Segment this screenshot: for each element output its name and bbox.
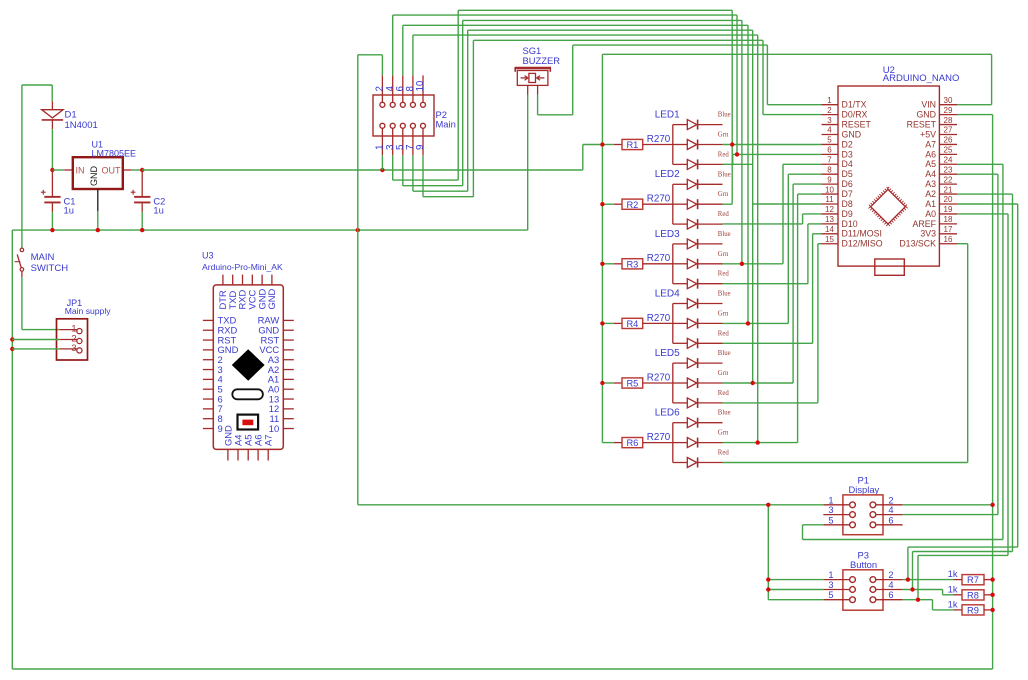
U3 ISP square (238, 415, 259, 430)
resistor R1 (602, 144, 614, 146)
svg-text:R6: R6 (626, 438, 638, 448)
U2 USB connector symbol (875, 259, 905, 275)
svg-text:Red: Red (718, 450, 730, 457)
U2 pin 4 GND (822, 133, 839, 135)
U3 right pin 13 (283, 398, 294, 400)
U2 pin 27 +5V (939, 133, 957, 135)
svg-text:20: 20 (944, 195, 953, 204)
svg-text:12: 12 (825, 205, 834, 214)
U3 right pin 11 (283, 418, 294, 420)
svg-text:+5V: +5V (920, 129, 936, 139)
U3 left pin GND (203, 349, 213, 351)
svg-text:9: 9 (415, 145, 426, 150)
U2 pin 2 D0/RX (822, 114, 839, 116)
svg-text:R2: R2 (626, 200, 638, 210)
svg-text:AREF: AREF (913, 219, 937, 229)
wire (51, 129, 53, 170)
wire LED3 Grn to D4 (723, 263, 784, 265)
svg-text:D4: D4 (842, 159, 853, 169)
U3 left pin RXD (203, 329, 213, 331)
wire P2 pin2 to GND rail (381, 55, 383, 76)
P2 pin 4 (392, 75, 394, 102)
U2 pin 24 A5 (939, 163, 957, 165)
wire bus vert D6 (757, 35, 759, 443)
P2 pin 7 (412, 129, 414, 156)
resistor R8 (903, 589, 943, 591)
svg-text:D12/MISO: D12/MISO (842, 239, 883, 249)
wire bus D5 (403, 24, 748, 26)
wire GND left vertical (11, 230, 13, 669)
P2 pin 9 (422, 129, 424, 156)
U3 top pin GND (271, 275, 273, 285)
wire P2 pin7 route (412, 155, 414, 191)
svg-text:Display: Display (849, 484, 880, 495)
svg-text:GND: GND (916, 110, 936, 120)
svg-text:Red: Red (718, 151, 730, 158)
svg-text:D6: D6 (842, 179, 853, 189)
svg-text:D2: D2 (842, 139, 853, 149)
U3 left pin TXD (203, 319, 213, 321)
resistor R6 (602, 442, 614, 444)
U2 pin 25 A6 (939, 153, 957, 155)
U3 left pin 7 (203, 408, 213, 410)
svg-text:U3: U3 (202, 251, 214, 261)
U2 pin 8 D5 (822, 173, 839, 175)
node junction GND right (990, 503, 994, 507)
svg-text:3V3: 3V3 (920, 229, 936, 239)
svg-text:MAIN: MAIN (31, 252, 55, 263)
node junction GND P3.3 (766, 587, 770, 591)
U3 left pin 5 (203, 388, 213, 390)
node junction +5V rail R4 (600, 321, 604, 325)
U3 left pin 2 (203, 359, 213, 361)
wire bus vert D3 (736, 15, 738, 154)
svg-text:13: 13 (825, 215, 834, 224)
svg-text:R1: R1 (626, 140, 638, 150)
wire P3 pin5 (768, 599, 823, 601)
U3 top pin VCC (251, 275, 253, 285)
svg-text:Red: Red (718, 390, 730, 397)
resistor R7 (903, 579, 954, 581)
svg-text:D8: D8 (842, 199, 853, 209)
U2 pin 30 VIN (939, 104, 957, 106)
svg-text:Blue: Blue (718, 112, 731, 119)
node junction +5V rail R3 (600, 262, 604, 266)
P2 pin 6 (402, 75, 404, 102)
diode D1 (51, 101, 53, 109)
wire JP1 pin3 (10, 347, 14, 351)
wire GND pin29 (957, 114, 993, 116)
wire buzzer left to GND (527, 95, 529, 231)
svg-text:27: 27 (944, 126, 953, 135)
P2 pin 3 (392, 129, 394, 156)
U2 pin 16 D13/SCK (939, 243, 957, 245)
svg-text:OUT: OUT (102, 166, 122, 176)
U3 bottom pin A4 (237, 449, 239, 460)
svg-text:R270: R270 (647, 194, 671, 205)
svg-text:1: 1 (828, 495, 833, 505)
svg-text:5: 5 (827, 136, 832, 145)
svg-text:2: 2 (888, 495, 893, 505)
wire GND long to P1 pin1 (358, 504, 824, 506)
svg-text:Blue: Blue (718, 231, 731, 238)
svg-text:R5: R5 (626, 379, 638, 389)
P1 pin 3 (823, 514, 849, 516)
wire GND bottom (12, 668, 992, 670)
svg-text:IN: IN (76, 166, 85, 176)
svg-text:9: 9 (827, 175, 832, 184)
U2 pin 14 D11/MOSI (822, 233, 839, 235)
resistor R5 (602, 382, 614, 384)
JP1 pin 3 (60, 348, 78, 350)
capacitor C1 (51, 170, 53, 197)
svg-text:Grn: Grn (718, 132, 729, 139)
wire bus vert D0/RX (762, 40, 764, 114)
svg-text:3: 3 (71, 343, 76, 353)
svg-text:A7: A7 (263, 435, 274, 446)
U3 top pin TXD (232, 275, 234, 285)
svg-text:2: 2 (888, 570, 893, 580)
U3 right pin 10 (283, 428, 294, 430)
svg-text:1k: 1k (948, 584, 958, 594)
svg-text:19: 19 (944, 205, 953, 214)
wire LED6 Red to D13 (723, 462, 968, 464)
svg-text:RESET: RESET (842, 119, 872, 129)
U2 pin 10 D7 (822, 193, 839, 195)
U3 chip diamond (233, 350, 264, 380)
U3 right pin VCC (283, 349, 294, 351)
U2 pin 23 A4 (939, 173, 957, 175)
U2 pin 13 D10 (822, 223, 839, 225)
svg-text:Main: Main (436, 119, 456, 130)
node junction +5V rail R2 (600, 202, 604, 206)
U3 right pin GND (283, 329, 294, 331)
node IN junction (50, 168, 54, 172)
wire LED1 Grn to D2 row (723, 144, 822, 146)
svg-text:1k: 1k (948, 600, 958, 610)
svg-text:3: 3 (828, 505, 833, 515)
node junction GND P1 (766, 503, 770, 507)
U3 right pin 12 (283, 408, 294, 410)
wire LED6 Grn to D7 (723, 442, 798, 444)
wire JP1 pin2 (10, 337, 14, 341)
svg-text:Grn: Grn (718, 310, 729, 317)
wire P2 pin8 riser (412, 35, 414, 75)
resistor R9 (903, 599, 933, 601)
wire A5 to P1 pin5 (957, 163, 1003, 165)
U3 left pin 9 (203, 428, 213, 430)
svg-text:30: 30 (944, 96, 953, 105)
wire bus vert D5 (747, 25, 749, 323)
U3 bottom pin A7 (267, 449, 269, 460)
node junction +5V rail R1 (600, 142, 604, 146)
svg-text:Red: Red (718, 330, 730, 337)
wire bus D4 (463, 19, 742, 21)
wire P2 pin1 to +5V (381, 155, 383, 170)
svg-text:1k: 1k (948, 569, 958, 579)
U3 bottom pin A6 (257, 449, 259, 460)
svg-text:D9: D9 (842, 209, 853, 219)
svg-text:Red: Red (718, 211, 730, 218)
node junction GND R7 (990, 577, 994, 581)
U3 left pin 3 (203, 369, 213, 371)
wire bus D0/RX (473, 39, 763, 41)
U3 right pin A3 (283, 359, 294, 361)
U2 pin 21 A2 (939, 193, 957, 195)
wire GND mid rail (357, 55, 359, 505)
svg-text:D5: D5 (842, 169, 853, 179)
U2 pin 29 GND (939, 114, 957, 116)
svg-text:8: 8 (827, 165, 832, 174)
svg-text:3: 3 (827, 116, 832, 125)
P2 pin 2 (381, 75, 383, 102)
wire bus vert D8 (752, 30, 754, 383)
net +5V (OUT) (140, 168, 144, 172)
svg-text:R3: R3 (626, 259, 638, 269)
P1 pin 1 (823, 504, 849, 506)
svg-text:A7: A7 (925, 139, 936, 149)
svg-text:D1/TX: D1/TX (842, 100, 867, 110)
wire bus D2 (458, 9, 732, 11)
node junction net A1 (906, 577, 910, 581)
P2 pin 5 (402, 129, 404, 156)
node junction +5V rail R5 (600, 381, 604, 385)
svg-text:10: 10 (415, 80, 426, 91)
svg-text:24: 24 (944, 155, 953, 164)
wire A2 to P3 pin4 (957, 193, 1013, 195)
svg-text:ARDUINO_NANO: ARDUINO_NANO (883, 73, 960, 84)
svg-text:1u: 1u (64, 205, 74, 216)
node junction net D2 (730, 142, 734, 146)
P2 pin 8 (412, 75, 414, 102)
svg-text:RESET: RESET (907, 119, 937, 129)
svg-text:6: 6 (888, 515, 893, 525)
svg-text:Grn: Grn (718, 251, 729, 258)
svg-text:1: 1 (828, 570, 833, 580)
wire LED5 Grn to D6 (723, 382, 794, 384)
U2 pin 3 RESET (822, 124, 839, 126)
resistor R4 (602, 322, 614, 324)
U3 right pin RAW (283, 319, 294, 321)
JP1 pin 2 (60, 339, 78, 341)
svg-text:18: 18 (944, 215, 953, 224)
svg-text:R7: R7 (967, 575, 979, 585)
U3 right pin A2 (283, 369, 294, 371)
svg-text:Blue: Blue (718, 291, 731, 298)
U2 QFP chip symbol (871, 189, 906, 224)
U2 pin 20 A1 (939, 203, 957, 205)
svg-text:LED6: LED6 (655, 408, 680, 419)
svg-text:28: 28 (944, 116, 953, 125)
U1 GND pin wire (97, 189, 99, 211)
U2 pin 11 D8 (822, 203, 839, 205)
wire P2 pin9 route (422, 155, 424, 196)
wire P3 pin3 (768, 589, 823, 591)
wire P2 pin6 riser (402, 25, 404, 75)
P1 pin 4 (876, 514, 903, 516)
wire D3 jog (733, 153, 737, 155)
svg-text:D3: D3 (842, 149, 853, 159)
P3 pin 4 (876, 589, 903, 591)
wire LED1 Red (723, 163, 753, 165)
wire bus vert D1/TX (766, 45, 768, 105)
P2 pin 1 (381, 129, 383, 156)
svg-text:BUZZER: BUZZER (523, 55, 561, 66)
svg-text:GND: GND (89, 166, 99, 187)
wire LED4 Grn to D5 (723, 322, 789, 324)
U2 pin 18 AREF (939, 223, 957, 225)
svg-text:A1: A1 (925, 199, 936, 209)
U3 right pin A0 (283, 388, 294, 390)
svg-text:SWITCH: SWITCH (31, 263, 69, 274)
P3 pin 5 (823, 599, 849, 601)
svg-text:A6: A6 (925, 149, 936, 159)
U3 pill (232, 389, 263, 399)
svg-text:2: 2 (827, 106, 832, 115)
P1 pin 2 (876, 504, 903, 506)
svg-text:1u: 1u (153, 205, 163, 216)
wire A0 to P3 pin6 (957, 213, 1008, 215)
svg-text:11: 11 (825, 195, 834, 204)
wire P2 pin3 route (392, 155, 394, 180)
svg-text:A0: A0 (925, 209, 936, 219)
svg-text:29: 29 (944, 106, 953, 115)
wire bus D6 (413, 34, 758, 36)
P2 pin 10 (422, 75, 424, 102)
svg-text:R4: R4 (626, 319, 638, 329)
svg-text:A4: A4 (925, 169, 936, 179)
svg-text:D7: D7 (842, 189, 853, 199)
svg-text:A5: A5 (925, 159, 936, 169)
U3 left pin 8 (203, 418, 213, 420)
wire bus vert D4 (741, 20, 743, 263)
capacitor C2 (131, 169, 142, 171)
node junction GND R9 (990, 608, 994, 612)
wire P1 pin2 to GND (903, 504, 993, 506)
wire LED3 Red to D10 (723, 283, 808, 285)
svg-text:17: 17 (944, 225, 953, 234)
svg-text:Grn: Grn (718, 191, 729, 198)
P3 pin 1 (823, 579, 849, 581)
svg-text:Blue: Blue (718, 171, 731, 178)
node junction net A0 (916, 598, 920, 602)
wire LED4 Red to D11 (723, 342, 813, 344)
U2 pin 6 D3 (822, 153, 839, 155)
wire LED2 Grn (723, 203, 733, 205)
svg-text:14: 14 (825, 225, 834, 234)
svg-text:Grn: Grn (718, 430, 729, 437)
svg-text:26: 26 (944, 136, 953, 145)
connector JP1 (57, 319, 88, 360)
main switch S1 (20, 248, 24, 252)
P3 pin 2 (876, 579, 903, 581)
svg-text:Red: Red (718, 271, 730, 278)
svg-text:Main supply: Main supply (65, 306, 112, 316)
wire bus vert D2 (731, 10, 733, 204)
resistor R3 (602, 263, 614, 265)
svg-text:6: 6 (827, 146, 832, 155)
U3 bottom pin A5 (247, 449, 249, 460)
node junction net A2 (910, 587, 914, 591)
svg-text:LED1: LED1 (655, 110, 680, 121)
svg-text:R270: R270 (647, 372, 671, 383)
svg-text:10: 10 (825, 185, 834, 194)
wire bus D8 (468, 29, 753, 31)
U3 top pin GND (261, 275, 263, 285)
U3 right pin A1 (283, 378, 294, 380)
svg-text:Blue: Blue (718, 350, 731, 357)
svg-text:4: 4 (827, 126, 832, 135)
JP1 pin 1 (60, 329, 78, 331)
svg-text:Blue: Blue (718, 410, 731, 417)
node junction net D4 (740, 262, 744, 266)
U2 pin 19 A0 (939, 213, 957, 215)
U2 pin 1 D1/TX (822, 104, 839, 106)
wire buzzer right to D1/TX (537, 95, 539, 115)
svg-text:VIN: VIN (921, 100, 936, 110)
svg-text:23: 23 (944, 165, 953, 174)
wire (22, 84, 52, 86)
svg-text:25: 25 (944, 146, 953, 155)
svg-text:GND: GND (842, 129, 862, 139)
wire P2 pin5 route (402, 155, 404, 185)
svg-text:1: 1 (827, 96, 832, 105)
svg-text:D10: D10 (842, 219, 858, 229)
svg-text:Grn: Grn (718, 370, 729, 377)
node junction net D7 (756, 440, 760, 444)
svg-text:7: 7 (827, 155, 832, 164)
svg-text:LED4: LED4 (655, 288, 680, 299)
wire VIN (957, 104, 992, 106)
U2 pin 15 D12/MISO (822, 243, 839, 245)
svg-text:A3: A3 (925, 179, 936, 189)
wire +5V LED rail (601, 54, 603, 442)
wire LED2 Red to D9 (723, 223, 803, 225)
svg-text:D0/RX: D0/RX (842, 110, 868, 120)
U3 top pin RXD (242, 275, 244, 285)
U3 left pin RST (203, 339, 213, 341)
wire bus D3 (393, 14, 737, 16)
node junction GND R8 (990, 593, 994, 597)
svg-text:R270: R270 (647, 313, 671, 324)
svg-text:LM7805EE: LM7805EE (92, 149, 137, 159)
voltage regulator U1 (64, 169, 73, 171)
node junction net D6 (751, 381, 755, 385)
svg-text:R270: R270 (647, 253, 671, 264)
P3 pin 6 (876, 599, 903, 601)
P1 pin 6 (876, 524, 903, 526)
P3 pin 3 (823, 589, 849, 591)
node junction GND P3.1 (766, 577, 770, 581)
svg-text:D11/MOSI: D11/MOSI (842, 229, 882, 239)
svg-text:10: 10 (269, 423, 279, 434)
svg-text:D13/SCK: D13/SCK (899, 239, 936, 249)
U3 left pin 4 (203, 378, 213, 380)
svg-text:R270: R270 (647, 432, 671, 443)
svg-text:LED2: LED2 (655, 169, 680, 180)
svg-text:LED3: LED3 (655, 229, 680, 240)
U3 left pin 6 (203, 398, 213, 400)
U2 pin 9 D6 (822, 183, 839, 185)
svg-text:Button: Button (850, 559, 877, 570)
svg-text:5: 5 (828, 515, 833, 525)
svg-text:1N4001: 1N4001 (65, 120, 98, 131)
U2 pin 26 A7 (939, 143, 957, 145)
svg-text:21: 21 (944, 185, 953, 194)
svg-text:LED5: LED5 (655, 348, 680, 359)
svg-text:GND: GND (266, 288, 277, 309)
wire P2 pin4 riser (392, 15, 394, 75)
